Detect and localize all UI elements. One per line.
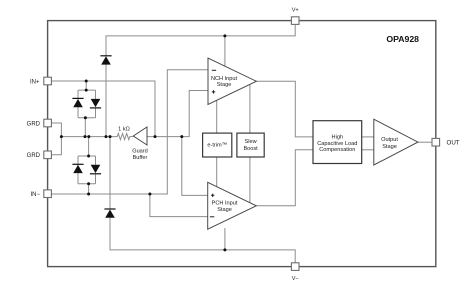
svg-text:High: High [332, 134, 344, 140]
svg-text:e-trim™: e-trim™ [207, 143, 227, 149]
svg-text:Capacitive Load: Capacitive Load [317, 141, 357, 147]
svg-text:Stage: Stage [382, 144, 397, 150]
svg-text:Stage: Stage [217, 207, 232, 213]
svg-text:1 kΩ: 1 kΩ [118, 127, 130, 133]
svg-text:Boost: Boost [243, 146, 258, 152]
svg-text:Guard: Guard [132, 148, 148, 154]
svg-text:V+: V+ [292, 8, 299, 14]
svg-text:OUT: OUT [447, 139, 460, 146]
svg-text:IN+: IN+ [30, 79, 40, 85]
svg-text:GRD: GRD [27, 122, 41, 128]
svg-text:V−: V− [292, 276, 299, 282]
svg-text:GRD: GRD [27, 153, 41, 159]
svg-text:Buffer: Buffer [133, 155, 148, 161]
svg-text:NCH Input: NCH Input [211, 76, 238, 82]
svg-text:Stage: Stage [217, 82, 232, 88]
svg-text:Compensation: Compensation [319, 147, 355, 153]
svg-text:Slew: Slew [245, 139, 258, 145]
svg-text:OPA928: OPA928 [386, 34, 419, 44]
svg-text:PCH Input: PCH Input [212, 201, 238, 207]
svg-text:IN−: IN− [30, 192, 40, 198]
svg-text:Output: Output [381, 137, 398, 143]
